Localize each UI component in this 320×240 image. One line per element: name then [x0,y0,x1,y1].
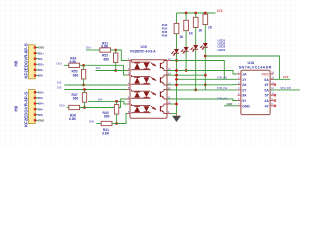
node junction column1/pin16 [175,59,178,62]
node U15 pin 3 [127,71,130,75]
svg-text:STM_IN5: STM_IN5 [280,87,291,90]
svg-text:DI2+: DI2+ [57,61,63,65]
svg-text:DI3+: DI3+ [60,103,66,107]
svg-text:1K: 1K [198,29,203,33]
wire R53 top stub [83,65,85,69]
wire R40 top stub [116,101,118,104]
svg-text:3V3: 3V3 [283,75,289,79]
node junction column1/pin15 net [175,69,178,72]
resistor R53 [72,70,86,80]
op-amp U18 body SN74LVC14ADR [241,70,270,114]
node U18 pin 10 [265,92,275,98]
svg-text:GND: GND [38,119,44,123]
svg-text:3Y: 3Y [242,99,247,103]
wire R31 to junction [111,49,116,51]
svg-text:DI1-: DI1- [38,57,43,61]
svg-text:14: 14 [168,71,171,75]
node U15 pin 4 [127,81,130,85]
resistor R41 [101,121,112,135]
transistor U15 channel 3 optocoupler symbol [132,90,168,100]
svg-text:GND: GND [242,104,250,108]
svg-text:1K: 1K [189,32,194,36]
svg-text:DI2+: DI2+ [38,63,44,67]
wire DI3- to U15 pin 5 [64,89,127,91]
svg-text:5A: 5A [264,88,269,92]
node U18 pin 13 [264,76,274,82]
svg-text:1A: 1A [242,73,247,77]
ground [172,114,181,123]
wire DI4- to U15 pin 7 [88,101,127,104]
wire R37 to DI3+ net [84,102,86,107]
wire R52 top stub [115,50,117,53]
svg-text:1Y: 1Y [242,78,247,82]
svg-text:4A: 4A [264,99,269,103]
resistor R31 [100,41,111,52]
wire LED1 cathode column [176,53,178,113]
wire GND net to U18 [224,105,237,107]
svg-text:1K: 1K [179,35,184,39]
svg-text:680: 680 [104,57,110,61]
node junction column4/pin13 net [204,83,207,86]
svg-text:DI4-: DI4- [38,107,43,111]
node junction column1/pin13 net [175,83,178,86]
wire R38 to U15 pin 6 [80,99,127,108]
wire U15 pin10 to column [171,103,177,105]
wire LED4 cathode column [204,47,206,90]
wire junction to U15 pin 1 [116,50,127,61]
connector H9 [29,90,45,124]
resistor R40 [103,105,119,119]
wire R53 to DI2- net [83,79,85,85]
svg-text:3V3: 3V3 [217,9,223,13]
LED LED3 [191,28,199,52]
svg-text:H8: H8 [14,60,19,66]
node U15 pin 8 [127,110,130,114]
node U18 pin 5 [237,92,247,98]
node junction column4/pin14 net [204,74,207,77]
node U18 pin 12 no-connect [274,84,276,86]
svg-text:DI3-: DI3- [57,85,62,89]
svg-text:R39: R39 [162,34,168,38]
wire DI4+ to R41 [96,123,101,125]
resistor R35 [184,13,194,36]
svg-text:SN74LVC14ADR: SN74LVC14ADR [239,65,272,69]
node rail junction 3 [194,12,197,15]
svg-text:DI0-: DI0- [38,74,43,78]
node junction R31/R52 [114,49,117,52]
node U15 pin 15 [167,67,171,71]
wire U15 pin11 run to U18 pin 6 [167,99,237,101]
node U15 pin 6 [127,95,130,99]
wire DI1+ to R31 [86,49,100,51]
node junction column4 VCC net [204,55,207,58]
LED LED4 [200,24,208,49]
resistor R38 [69,105,80,121]
node U15 pin 16 [167,57,171,61]
wire junction to U15 pin 3 [84,65,127,75]
connector H8 [29,45,45,79]
node junction column1/pin14 net [175,74,178,77]
LED LED1 [171,34,179,56]
resistor R43 [174,13,184,39]
node rail junction 4 [204,12,207,15]
svg-text:PS2805C-4-F3-A: PS2805C-4-F3-A [130,49,156,53]
node junction column2/pin15 net [185,69,188,72]
wire U15 pin14 run [167,74,205,76]
svg-text:680: 680 [73,97,79,101]
svg-text:DI1+: DI1+ [86,46,92,50]
svg-text:DI1+: DI1+ [38,51,44,55]
svg-text:VCC: VCC [262,73,270,77]
node junction R40/R41 [115,122,118,125]
node junction R53/pin4 [82,84,85,87]
svg-text:DI2-: DI2- [38,68,43,72]
node U18 pin 9 no-connect [274,99,276,101]
wire 3V3 stub at U18 [270,78,290,80]
svg-text:2A: 2A [242,83,247,87]
svg-text:4Y: 4Y [265,104,270,108]
svg-text:DI4+: DI4+ [38,102,44,106]
wire STM_IN5 net out [270,89,300,91]
node U15 pin 13 [167,81,171,85]
node U15 pin 14 [167,71,171,75]
wire DI2- to U15 pin 4 [64,84,127,86]
node U15 pin 2 [127,67,130,71]
svg-text:STM_IN2: STM_IN2 [217,87,228,90]
svg-text:6.8K: 6.8K [102,132,110,136]
svg-text:DI3+: DI3+ [38,91,44,95]
wire junction to U15 pin 8 [117,114,127,124]
node junction R37/R38 [83,106,86,109]
wire U15 pin9 to ground [171,113,177,115]
svg-text:DI1-: DI1- [96,66,101,70]
resistor R39 [203,13,213,30]
node U15 pin 9 [167,110,171,114]
svg-text:KF2EDGVR-6P-S: KF2EDGVR-6P-S [23,92,28,127]
wire STM_IN1 net to U18 pin 2 [177,78,238,80]
svg-text:LED4: LED4 [218,48,226,52]
wire LED3 cathode column [195,49,197,90]
node junction column1/STM_IN1 [175,78,178,81]
node U18 pin 8 no-connect [274,105,276,107]
power 3V3 rail wire [177,12,216,14]
svg-text:GND: GND [227,102,233,106]
node U18 pin 4 [237,86,247,92]
transistor U15 channel 1 optocoupler symbol [132,61,168,71]
node U18 pin 6 [237,97,247,103]
wire U15 pin12 run to U18 pin 4 [167,89,237,91]
wire R34 to junction [80,64,84,66]
svg-text:5Y: 5Y [265,94,270,98]
wire R52 to DI1- net [115,63,117,71]
node U18 pin 9 [264,97,273,103]
node U15 pin 12 [167,86,171,90]
svg-text:680: 680 [104,114,110,118]
wire DI2+ to R34 [64,64,69,66]
transistor U15 channel 4 optocoupler symbol [132,104,168,114]
LED LED2 [181,31,189,54]
wire R40 to DI4+ net [116,114,118,123]
svg-text:6.8K: 6.8K [70,60,78,64]
svg-text:DI5-: DI5- [38,113,43,117]
wire DI3+ to R38 [67,107,69,109]
node junction column3/pin12 net [194,89,197,92]
node U18 pin 7 [237,102,250,108]
resistor R37 [72,93,87,103]
node U18 pin 8 [265,102,274,108]
svg-text:DI4+: DI4+ [89,119,95,123]
svg-text:2Y: 2Y [242,88,247,92]
svg-text:STM_IN1: STM_IN1 [217,76,228,79]
svg-text:1K: 1K [208,26,213,30]
wire U15 pin13 run to U18 pin 3 [167,84,237,86]
node U18 pin 11 [264,86,274,92]
svg-text:6A: 6A [264,78,269,82]
node U15 pin 10 [167,100,171,104]
svg-text:6Y: 6Y [265,83,270,87]
node U18 pin 14 [262,70,275,76]
svg-text:STM_IN3: STM_IN3 [217,98,228,101]
svg-text:6.8K: 6.8K [101,45,109,49]
transistor U15 channel 2 optocoupler symbol [132,75,168,85]
node junction R37 top [83,88,86,91]
wire VCC net to U18 [205,56,279,79]
svg-text:H9: H9 [14,105,19,111]
svg-text:680: 680 [73,73,79,77]
resistor R52 [102,53,118,63]
svg-text:KF2EDGVR-6P-S: KF2EDGVR-6P-S [23,43,28,78]
node U15 pin 11 [167,95,171,99]
wire LED2 cathode column [185,51,187,70]
svg-text:DI2-: DI2- [57,81,62,85]
resistor R34 [69,57,80,68]
node junction R34/R53 [82,64,85,67]
node U18 pin 12 [265,81,275,87]
node U18 pin 2 [237,76,247,82]
node U15 pin 1 [127,57,130,61]
op-amp U15 body PS2805C-4-F3-A [130,60,167,118]
svg-text:GND: GND [38,46,44,50]
wire R37 top stub [84,90,86,93]
node U15 pin 7 [127,100,130,104]
node U18 pin 3 [237,81,247,87]
svg-text:12: 12 [168,86,171,90]
node U18 pin 10 no-connect [274,94,276,96]
svg-text:DI3-: DI3- [38,96,43,100]
node junction column1/pin10 [175,103,178,106]
node U15 pin 5 [127,86,130,90]
wire U15 pin16 run to U18 pin 2 [171,61,225,80]
resistor R36 [193,13,203,33]
svg-text:3A: 3A [242,94,247,98]
node U18 pin 1 [237,70,247,76]
wire R41 to junction [112,123,117,125]
node rail junction 2 [185,12,188,15]
svg-text:DI4-: DI4- [98,97,103,101]
wire DI1- to U15 pin 2 [96,70,128,72]
wire U15 pin15 run to U18 pin 1 [167,71,237,75]
svg-text:6.8K: 6.8K [69,117,77,121]
node junction R40 top [115,100,118,103]
node junction R52/pin2 [114,69,117,72]
